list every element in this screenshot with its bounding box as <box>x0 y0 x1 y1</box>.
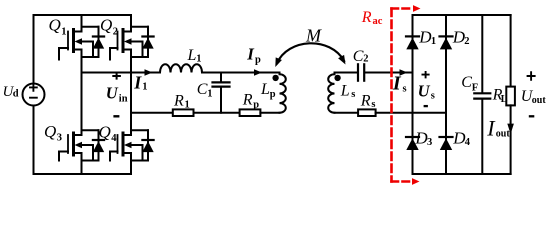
inductor Ls secondary coil <box>328 73 334 113</box>
diode D2 <box>440 36 453 49</box>
svg-text:Q: Q <box>99 123 111 142</box>
label M <box>305 25 322 45</box>
label Us <box>418 81 435 101</box>
arrow Ip <box>254 69 262 76</box>
svg-text:C: C <box>353 48 364 65</box>
label Uout <box>521 88 547 106</box>
label Lp <box>260 81 276 100</box>
node dot primary <box>272 75 278 81</box>
svg-text:3: 3 <box>427 137 432 148</box>
rectifier leg A <box>412 15 414 174</box>
label Q1 <box>49 16 67 38</box>
resistor RL load <box>506 15 515 174</box>
svg-text:1: 1 <box>207 88 212 99</box>
label Ip <box>246 44 261 65</box>
label D3 <box>414 128 432 148</box>
transistor Q1 <box>59 15 104 60</box>
svg-text:L: L <box>260 81 270 98</box>
svg-text:1: 1 <box>196 54 201 65</box>
transistor Q3 <box>59 57 104 174</box>
svg-text:C: C <box>197 81 208 98</box>
diode D4 <box>440 137 453 150</box>
svg-text:R: R <box>360 93 371 110</box>
diode D3 <box>406 137 419 150</box>
svg-text:s: s <box>403 84 407 95</box>
svg-text:s: s <box>431 91 435 102</box>
svg-text:M: M <box>305 25 322 45</box>
svg-text:I: I <box>133 73 142 93</box>
svg-text:4: 4 <box>465 137 471 148</box>
label I1 <box>133 73 147 93</box>
wire bottom rail of inverter <box>34 173 132 175</box>
svg-text:p: p <box>270 89 276 100</box>
wire rectifier bottom rail <box>413 173 511 175</box>
label D4 <box>452 128 471 148</box>
polarity marks Us <box>422 71 430 106</box>
voltage source Ud <box>23 15 45 174</box>
wire top rail of inverter <box>34 14 132 16</box>
label Q3 <box>44 122 62 143</box>
arrow Is <box>400 69 408 76</box>
wire bottom secondary <box>335 112 359 114</box>
svg-text:3: 3 <box>57 132 62 143</box>
label D2 <box>452 27 470 47</box>
svg-text:1: 1 <box>185 99 190 110</box>
svg-text:s: s <box>371 99 375 110</box>
svg-text:Q: Q <box>100 16 112 35</box>
svg-text:L: L <box>340 83 350 100</box>
label C2 <box>353 48 369 65</box>
arrow Iout <box>507 124 514 134</box>
transistor Q2 <box>110 15 154 60</box>
wire Rs to rectifier leg B <box>376 112 446 114</box>
label Ud <box>3 84 19 100</box>
svg-text:F: F <box>472 83 478 94</box>
transistor Q4 <box>110 57 154 174</box>
inductor L1 <box>160 64 202 72</box>
node dot secondary <box>334 75 340 81</box>
wire top output (I1) <box>82 72 161 74</box>
svg-text:2: 2 <box>464 36 469 47</box>
label C1 <box>197 81 213 99</box>
svg-text:R: R <box>242 92 253 109</box>
svg-text:4: 4 <box>111 133 117 144</box>
label Is <box>392 73 407 95</box>
svg-text:R: R <box>173 92 184 109</box>
label Q2 <box>100 16 118 38</box>
label Uin <box>106 84 128 105</box>
label Ls <box>340 83 356 101</box>
svg-text:p: p <box>255 55 261 66</box>
resistor R1 <box>173 109 194 116</box>
wire L1 to Lp <box>202 72 280 74</box>
rectifier leg B <box>445 15 447 174</box>
wire bottom primary <box>131 112 173 114</box>
polarity marks Uin <box>112 73 121 117</box>
red dashed bracket Rac <box>392 5 421 185</box>
label CF <box>461 74 478 94</box>
svg-text:d: d <box>13 88 19 99</box>
svg-text:I: I <box>392 73 402 95</box>
capacitor CF <box>474 15 490 174</box>
svg-text:2: 2 <box>113 26 118 37</box>
svg-text:in: in <box>119 93 128 104</box>
label RL <box>492 87 508 105</box>
svg-text:out: out <box>532 95 547 106</box>
label L1 <box>187 47 202 65</box>
wire rectifier top rail <box>413 14 511 16</box>
label D1 <box>418 27 436 47</box>
svg-text:Q: Q <box>44 122 56 141</box>
svg-text:L: L <box>501 94 508 105</box>
svg-text:1: 1 <box>142 82 147 93</box>
svg-text:1: 1 <box>431 36 436 47</box>
wire Ls to C2 <box>335 72 358 74</box>
svg-text:1: 1 <box>61 26 66 37</box>
label Iout <box>486 116 510 141</box>
resistor Rp <box>240 109 261 116</box>
label Q4 <box>99 123 118 144</box>
label Rac <box>361 9 383 27</box>
polarity marks Uout <box>527 71 536 116</box>
wire Rp to Lp <box>260 112 279 114</box>
capacitor C2 <box>358 64 364 80</box>
svg-text:2: 2 <box>363 54 368 65</box>
label R1 <box>173 92 190 110</box>
svg-text:R: R <box>361 9 372 26</box>
svg-text:out: out <box>496 128 511 139</box>
inductor Lp primary coil <box>280 73 286 113</box>
wire C2 to rectifier <box>365 72 412 74</box>
wire R1 to Rp <box>194 112 240 114</box>
svg-text:L: L <box>187 47 197 64</box>
arrow I1 <box>145 69 153 76</box>
label Rs <box>360 93 376 111</box>
svg-text:p: p <box>253 100 259 111</box>
diode D1 <box>406 36 419 49</box>
svg-text:Q: Q <box>49 16 61 35</box>
capacitor C1 <box>213 73 230 113</box>
svg-text:ac: ac <box>373 16 383 27</box>
svg-text:U: U <box>418 81 431 100</box>
label Rp <box>242 92 259 111</box>
mutual inductance arrow M <box>275 43 345 67</box>
resistor Rs <box>358 109 376 116</box>
svg-text:U: U <box>106 84 119 103</box>
svg-text:C: C <box>461 74 472 91</box>
svg-text:s: s <box>351 89 355 100</box>
